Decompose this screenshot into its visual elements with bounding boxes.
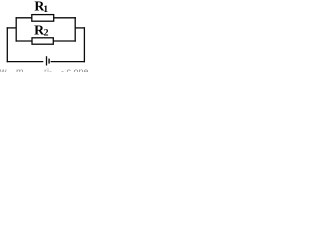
wire right branch to rail <box>75 27 85 29</box>
wire R2 right lead <box>53 40 76 42</box>
resistor R2 <box>32 38 53 44</box>
svg-text:2: 2 <box>44 28 49 39</box>
label R2 <box>34 22 49 38</box>
wire right parallel vertical <box>74 17 76 42</box>
wire R2 left lead <box>16 40 32 42</box>
wire left rail <box>6 27 8 62</box>
battery BT1 <box>47 56 50 65</box>
wire R1 left lead <box>16 17 32 19</box>
wire right rail <box>83 27 85 62</box>
svg-text:1: 1 <box>43 4 48 15</box>
resistor R1 <box>32 15 54 22</box>
wire left branch to rail <box>7 27 17 29</box>
svg-text:- c one: - c one <box>61 67 89 73</box>
svg-text:w: w <box>0 67 7 73</box>
label R1 <box>34 0 48 15</box>
wire left parallel vertical <box>15 17 17 42</box>
wire bottom left <box>7 61 44 63</box>
wire bottom right <box>51 61 85 63</box>
wire R1 right lead <box>54 17 76 19</box>
page noise: faint cut-off text at bottom edge <box>0 67 89 77</box>
svg-text:ri-: ri- <box>44 67 52 73</box>
svg-text:m: m <box>16 67 24 73</box>
